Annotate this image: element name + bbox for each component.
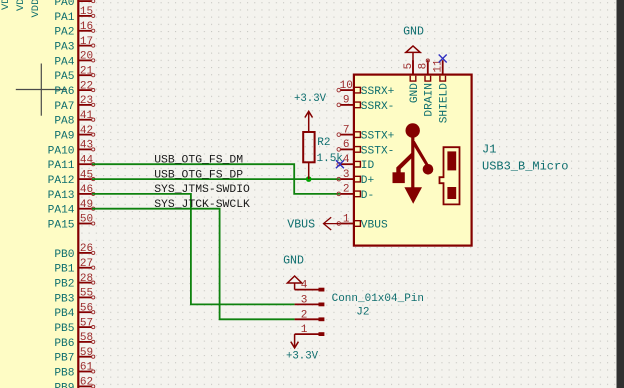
svg-text:56: 56 [80, 302, 93, 314]
pin PA4 (20) [54, 51, 94, 69]
pin PA13 (46) [48, 184, 95, 202]
pin PA10 (43) [48, 140, 95, 158]
pin PB2 (28) [54, 273, 94, 291]
svg-text:PB0: PB0 [54, 249, 74, 261]
svg-text:7: 7 [343, 124, 350, 136]
svg-text:PB5: PB5 [54, 323, 74, 335]
svg-text:50: 50 [80, 214, 93, 226]
svg-text:PA10: PA10 [48, 145, 75, 157]
svg-text:PA9: PA9 [54, 131, 74, 143]
J1 pin 1 VBUS [337, 213, 388, 231]
svg-text:J1: J1 [482, 143, 496, 157]
pin PB8 (61) [54, 362, 94, 380]
no-connect X on ID pin 4 [336, 160, 344, 168]
svg-text:PA8: PA8 [54, 116, 74, 128]
pin PB1 (27) [54, 258, 94, 276]
svg-text:PB3: PB3 [54, 293, 74, 305]
J1 pin 4 ID [337, 154, 375, 172]
svg-text:15: 15 [80, 6, 93, 18]
svg-text:57: 57 [80, 317, 93, 329]
svg-text:D-: D- [361, 190, 374, 202]
svg-text:41: 41 [80, 110, 94, 122]
logo right branch [412, 141, 429, 166]
svg-text:9: 9 [343, 95, 350, 107]
svg-text:2: 2 [301, 309, 308, 321]
svg-text:16: 16 [80, 21, 93, 33]
connector J1 USB3_B_Micro body [354, 75, 472, 246]
GND symbol above J1 pin 5 [406, 46, 420, 75]
svg-text:ID: ID [361, 160, 375, 172]
svg-text:45: 45 [80, 169, 93, 181]
svg-text:3: 3 [301, 294, 308, 306]
pin PA5 (21) [54, 65, 94, 83]
svg-text:PB6: PB6 [54, 338, 74, 350]
pin PB9 (62) [54, 377, 94, 388]
svg-text:PB1: PB1 [54, 264, 74, 276]
svg-text:GND: GND [409, 83, 421, 103]
svg-text:58: 58 [80, 332, 93, 344]
svg-text:SHIELD: SHIELD [439, 83, 451, 124]
svg-text:1: 1 [343, 213, 350, 225]
svg-text:11: 11 [433, 59, 445, 73]
logo arrow [404, 187, 422, 204]
svg-text:23: 23 [80, 95, 93, 107]
power +3.3V symbol above R2 [305, 111, 313, 132]
logo big circle [406, 123, 420, 137]
svg-text:43: 43 [80, 140, 93, 152]
svg-text:44: 44 [80, 154, 94, 166]
svg-text:3: 3 [343, 169, 350, 181]
logo trunk [411, 135, 414, 189]
svg-text:PB7: PB7 [54, 353, 74, 365]
pin PA12 (45) [48, 169, 95, 187]
resistor R2 [303, 132, 314, 162]
svg-text:VBUS: VBUS [287, 218, 315, 231]
J1 pin 2 D- [337, 184, 374, 202]
USB logo inside J1 [393, 123, 434, 204]
svg-text:+3.3V: +3.3V [286, 350, 319, 362]
svg-text:USB_OTG_FS_DP: USB_OTG_FS_DP [154, 169, 243, 181]
svg-text:20: 20 [80, 51, 93, 63]
pin PB0 (26) [54, 243, 94, 261]
svg-text:PB9: PB9 [54, 382, 74, 388]
svg-text:J2: J2 [356, 306, 369, 318]
svg-text:6: 6 [343, 139, 350, 151]
svg-text:SYS_JTCK-SWCLK: SYS_JTCK-SWCLK [154, 199, 250, 211]
svg-text:28: 28 [80, 273, 93, 285]
pin PA8 (41) [54, 110, 94, 128]
+3.3V symbol below J2 pin 1 (down arrow) [291, 334, 299, 348]
svg-text:27: 27 [80, 258, 93, 270]
svg-text:SSRX+: SSRX+ [361, 86, 395, 98]
svg-text:PB2: PB2 [54, 279, 74, 291]
svg-text:GND: GND [403, 25, 424, 38]
logo left branch [396, 151, 413, 173]
svg-text:49: 49 [80, 199, 93, 211]
svg-text:PA1: PA1 [54, 12, 74, 24]
cursor crosshair [16, 64, 67, 116]
svg-text:PA15: PA15 [48, 219, 75, 231]
svg-text:GND: GND [283, 255, 304, 268]
wire SYS_JTMS-SWDIO net [92, 194, 295, 305]
svg-text:61: 61 [80, 362, 94, 374]
pin PB5 (57) [54, 317, 94, 335]
svg-text:4: 4 [343, 154, 350, 166]
J2 pin 3 [295, 294, 325, 306]
J1 pin 5 GND (top) [403, 60, 421, 103]
pin PA6 (22) [54, 80, 94, 98]
J1 pin 8 DRAIN (top) [418, 60, 436, 116]
wire USB_OTG_FS_DM net [92, 164, 340, 194]
pin PB3 (55) [54, 288, 94, 306]
svg-text:Conn_01x04_Pin: Conn_01x04_Pin [332, 293, 424, 305]
J2 pin 2 [295, 309, 325, 321]
no-connect X on SHIELD pin 11 [439, 55, 447, 63]
J2 pin 1 [295, 324, 325, 336]
svg-text:26: 26 [80, 243, 93, 255]
J1 DRAIN pin end circle [426, 59, 429, 62]
svg-text:SSTX-: SSTX- [361, 145, 395, 157]
J1 pin 10 SSRX+ [337, 80, 395, 98]
svg-text:SSRX-: SSRX- [361, 101, 395, 113]
svg-text:59: 59 [80, 347, 93, 359]
svg-text:VBUS: VBUS [361, 219, 388, 231]
wire USB_OTG_FS_DP net [92, 178, 340, 180]
svg-text:+3.3V: +3.3V [294, 93, 327, 105]
svg-text:PA3: PA3 [54, 42, 74, 54]
right dark panel edge [617, 0, 624, 388]
pin PA1 (15) [54, 6, 94, 24]
svg-text:VDD: VDD [15, 0, 27, 11]
svg-text:DRAIN: DRAIN [424, 83, 436, 117]
pin PA15 (50) [48, 214, 95, 232]
hierarchical label VBUS arrow [324, 217, 340, 230]
svg-text:62: 62 [80, 377, 93, 388]
svg-text:PB4: PB4 [54, 308, 74, 320]
pin PB7 (59) [54, 347, 94, 365]
svg-text:SYS_JTMS-SWDIO: SYS_JTMS-SWDIO [154, 184, 250, 196]
svg-text:R2: R2 [317, 137, 330, 149]
J1 pin 9 SSRX- [337, 95, 394, 113]
svg-text:PB8: PB8 [54, 367, 74, 379]
svg-text:4: 4 [301, 280, 308, 292]
svg-text:PA4: PA4 [54, 56, 74, 68]
J1 pin 11 SHIELD (top) [433, 59, 451, 123]
GND symbol on J2 pin 4 [287, 276, 301, 290]
J1 pin 7 SSTX+ [337, 124, 395, 142]
svg-text:SSTX+: SSTX+ [361, 131, 395, 143]
svg-text:D+: D+ [361, 175, 375, 187]
pin PA3 (17) [54, 36, 94, 54]
J1 pin 6 SSTX- [337, 139, 394, 157]
svg-text:42: 42 [80, 125, 93, 137]
pin PA0 (14) [54, 0, 94, 9]
svg-text:PA11: PA11 [48, 160, 75, 172]
junction on DP net [306, 176, 312, 182]
svg-text:55: 55 [80, 288, 93, 300]
svg-text:17: 17 [80, 36, 93, 48]
pin PA11 (44) [48, 154, 95, 172]
pin PA2 (16) [54, 21, 94, 39]
R2 bottom lead [308, 162, 310, 179]
USB receptacle graphic [440, 147, 460, 204]
svg-text:PA7: PA7 [54, 101, 74, 113]
svg-text:2: 2 [343, 184, 350, 196]
pin PA14 (49) [48, 199, 95, 217]
svg-text:PA5: PA5 [54, 71, 74, 83]
svg-text:PA13: PA13 [48, 190, 75, 202]
svg-text:10: 10 [340, 80, 353, 92]
pin PB6 (58) [54, 332, 94, 350]
svg-text:USB_OTG_FS_DM: USB_OTG_FS_DM [154, 155, 243, 167]
svg-text:USB3_B_Micro: USB3_B_Micro [482, 160, 568, 174]
IC U1 MCU body (left) [0, 0, 78, 388]
svg-text:VDDA: VDDA [30, 0, 42, 18]
svg-text:46: 46 [80, 184, 93, 196]
pin PA7 (23) [54, 95, 94, 113]
svg-text:8: 8 [418, 63, 430, 70]
svg-text:21: 21 [80, 65, 94, 77]
svg-text:PA14: PA14 [48, 205, 75, 217]
wire SYS_JTCK-SWCLK net [92, 209, 295, 320]
svg-text:PA0: PA0 [54, 0, 74, 9]
svg-text:PA2: PA2 [54, 27, 74, 39]
J1 pin 3 D+ [337, 169, 375, 187]
svg-text:PA12: PA12 [48, 175, 75, 187]
svg-text:1: 1 [301, 324, 308, 336]
pin PB4 (56) [54, 302, 94, 320]
svg-text:22: 22 [80, 80, 93, 92]
svg-text:14: 14 [80, 0, 94, 3]
svg-text:VDD: VDD [0, 0, 12, 10]
J2 pin 4 [295, 280, 325, 292]
svg-text:PA6: PA6 [54, 86, 74, 98]
pin PA9 (42) [54, 125, 94, 143]
